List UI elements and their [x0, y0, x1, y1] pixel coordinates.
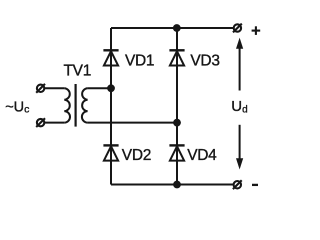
transformer TV1 primary winding [64, 88, 70, 122]
transformer TV1 core [74, 84, 76, 127]
terminal output minus [233, 180, 242, 189]
svg-text:VD4: VD4 [187, 147, 217, 164]
wire primary bottom lead [44, 122, 64, 124]
svg-text:VD3: VD3 [190, 53, 219, 70]
svg-text:VD2: VD2 [122, 147, 151, 164]
wire top rail [111, 27, 234, 29]
svg-text:Ud: Ud [231, 98, 247, 115]
wire secondary bottom lead [88, 122, 177, 124]
diode VD1 [103, 50, 118, 65]
diode VD4 [169, 145, 184, 160]
label minus sign [252, 184, 258, 186]
diode VD3 [169, 50, 184, 65]
junction secondary top / left branch [107, 84, 115, 92]
svg-text:VD1: VD1 [125, 53, 154, 70]
wire secondary top lead [88, 87, 111, 89]
junction bottom rail / VD4 branch [173, 181, 181, 189]
terminal input top [36, 84, 45, 93]
svg-text:~Uc: ~Uc [5, 99, 29, 115]
svg-text:TV1: TV1 [64, 62, 92, 79]
transformer TV1 secondary winding [82, 88, 88, 122]
wire left bridge branch [110, 28, 112, 185]
wire bottom rail [111, 184, 234, 186]
wire primary top lead [44, 87, 64, 89]
diode VD2 [103, 145, 118, 160]
terminal output plus [233, 24, 242, 33]
label plus sign [252, 26, 261, 35]
arrow Ud down [236, 125, 243, 170]
junction secondary bottom / right branch [173, 119, 181, 127]
terminal input bottom [36, 118, 45, 127]
wire right bridge branch [176, 28, 178, 185]
arrow Ud up [236, 38, 243, 91]
junction top rail / VD3 branch [173, 24, 181, 32]
